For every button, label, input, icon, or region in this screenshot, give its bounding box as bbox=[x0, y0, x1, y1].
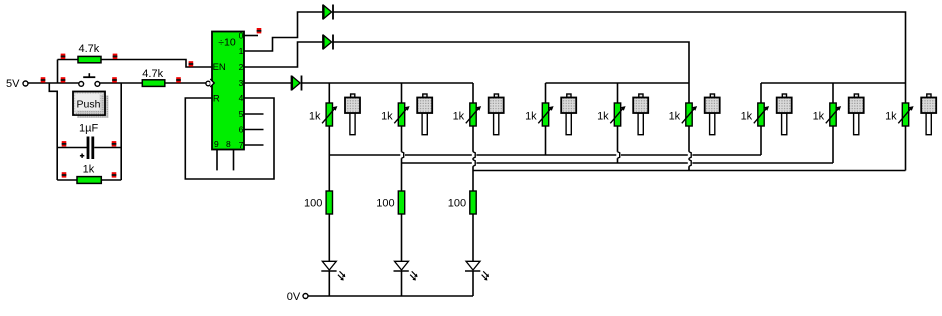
wire drop to pot 7 bbox=[760, 83, 762, 103]
IC U1 decade counter ÷10 bbox=[210, 30, 244, 149]
svg-text:1µF: 1µF bbox=[79, 123, 98, 135]
wire R loop bbox=[185, 98, 274, 179]
svg-text:100: 100 bbox=[376, 197, 394, 209]
pin 9 stub bbox=[216, 150, 218, 171]
svg-text:6: 6 bbox=[239, 124, 244, 134]
wire D2 to channel 6 column bbox=[333, 42, 689, 103]
handle 1k row left bbox=[62, 172, 67, 177]
wire drop to pot 5 bbox=[617, 83, 619, 103]
pin 8 stub bbox=[233, 150, 235, 171]
wire R2 to clock bbox=[165, 82, 206, 84]
svg-text:100: 100 bbox=[448, 197, 466, 209]
wire pot9 down bbox=[905, 126, 907, 171]
svg-text:1: 1 bbox=[239, 46, 244, 56]
svg-text:8: 8 bbox=[226, 139, 231, 149]
variable resistor VR4 1k bbox=[525, 103, 554, 126]
wire D1 to channel 9 column bbox=[333, 12, 906, 103]
wire pot4 down bbox=[545, 126, 547, 155]
wire 100ohm to LED 1 bbox=[328, 214, 330, 261]
svg-text:Push: Push bbox=[77, 98, 101, 110]
wire pot7 down bbox=[760, 126, 762, 155]
wire 5V to push switch bbox=[28, 82, 79, 84]
svg-text:1k: 1k bbox=[453, 110, 465, 122]
wire jog down to capacitor loop bbox=[49, 83, 57, 148]
wire pin3 to D3 bbox=[244, 82, 292, 84]
handle before clock bbox=[176, 77, 181, 82]
svg-text:2: 2 bbox=[239, 62, 244, 72]
svg-text:0: 0 bbox=[239, 30, 244, 40]
variable resistor VR2 1k bbox=[381, 103, 410, 126]
variable resistor VR9 1k bbox=[885, 103, 914, 126]
wire pot8 down bbox=[832, 126, 834, 163]
bus column 2 bbox=[402, 162, 834, 164]
wire 1k row left bbox=[57, 179, 77, 181]
svg-text:5: 5 bbox=[239, 109, 244, 119]
mallet striker M2 bbox=[417, 94, 432, 135]
wire 100ohm to LED 2 bbox=[401, 214, 403, 261]
variable resistor VR3 1k bbox=[453, 103, 482, 126]
mallet striker M9 bbox=[921, 94, 936, 135]
wire R1 to EN bbox=[101, 60, 212, 68]
mallet striker M8 bbox=[849, 94, 864, 135]
mallet striker M3 bbox=[489, 94, 504, 135]
LED D4 bbox=[321, 261, 345, 280]
variable resistor VR7 1k bbox=[741, 103, 770, 126]
mallet striker M7 bbox=[777, 94, 792, 135]
handle after switch bbox=[112, 77, 117, 82]
wire LED 2 to 0V rail bbox=[401, 271, 403, 296]
mallet striker M4 bbox=[561, 94, 576, 135]
diode D3 bbox=[292, 76, 302, 91]
resistor 100 R6 channel 3 bbox=[448, 191, 476, 214]
node junction up-branch bbox=[57, 60, 59, 84]
resistor R1 4.7k bbox=[78, 43, 101, 63]
pin 7 stub bbox=[244, 144, 264, 146]
wire LED 3 to 0V rail bbox=[472, 271, 474, 296]
resistor 100 R4 channel 1 bbox=[304, 191, 332, 214]
mallet striker M5 bbox=[633, 94, 648, 135]
capacitor C1 1uF bbox=[79, 123, 98, 159]
bus segment C bbox=[761, 82, 906, 84]
svg-text:4: 4 bbox=[239, 93, 244, 103]
bus segment B bbox=[546, 82, 690, 84]
svg-text:5V: 5V bbox=[6, 78, 20, 90]
LED D5 bbox=[394, 261, 418, 280]
resistor 100 R5 channel 2 bbox=[376, 191, 404, 214]
ground terminal 0V bbox=[287, 291, 308, 303]
handle 1k row right bbox=[112, 172, 117, 177]
bus column 3 bbox=[473, 170, 906, 172]
wire 1k row right bbox=[101, 179, 121, 181]
wire cap row right bbox=[94, 147, 121, 149]
svg-text:÷10: ÷10 bbox=[218, 36, 236, 48]
svg-text:1k: 1k bbox=[525, 110, 537, 122]
svg-text:9: 9 bbox=[214, 139, 219, 149]
svg-text:0V: 0V bbox=[287, 291, 301, 303]
wire pot3 down bbox=[473, 126, 475, 191]
handle R1 right bbox=[113, 54, 118, 59]
wire cap row left bbox=[57, 147, 87, 149]
wire pin1 staircase bbox=[244, 12, 323, 51]
handle cap row right bbox=[112, 141, 117, 146]
variable resistor VR1 1k bbox=[309, 103, 338, 126]
wire pot5 down bbox=[618, 126, 620, 163]
svg-text:1k: 1k bbox=[309, 110, 321, 122]
clock input node bbox=[206, 81, 211, 86]
svg-text:100: 100 bbox=[304, 197, 322, 209]
wire 0V rail bbox=[308, 295, 473, 297]
handle pin 0 bbox=[257, 28, 262, 33]
svg-text:R: R bbox=[213, 93, 220, 104]
wire drop to pot 4 bbox=[545, 83, 547, 103]
svg-text:3: 3 bbox=[239, 78, 244, 88]
wire LED 1 to 0V rail bbox=[328, 271, 330, 296]
mallet striker M6 bbox=[705, 94, 720, 135]
wire pot1 down bbox=[328, 126, 330, 191]
pin 5 stub bbox=[244, 113, 264, 115]
variable resistor VR8 1k bbox=[813, 103, 842, 126]
svg-text:1k: 1k bbox=[741, 110, 753, 122]
handle main-row right bbox=[61, 77, 66, 82]
variable resistor VR5 1k bbox=[597, 103, 626, 126]
mallet striker M1 bbox=[345, 94, 360, 135]
handle main-row left bbox=[41, 77, 46, 82]
svg-text:1k: 1k bbox=[83, 164, 95, 176]
resistor R3 1k bbox=[77, 164, 101, 184]
pin 0 stub bbox=[244, 35, 258, 37]
handle R1 left bbox=[61, 54, 66, 59]
wire pin2 staircase bbox=[244, 42, 323, 67]
diode D2 bbox=[323, 35, 333, 50]
LED D6 bbox=[465, 261, 489, 280]
power terminal 5V bbox=[6, 78, 28, 90]
wire R1 row left bbox=[58, 59, 79, 61]
handle cap row left bbox=[62, 141, 67, 146]
svg-text:7: 7 bbox=[239, 140, 244, 150]
wire pot6 down bbox=[689, 126, 691, 171]
wire drop to pot 8 bbox=[832, 83, 834, 103]
diode D1 bbox=[323, 5, 333, 20]
bus segment A pin3 bbox=[302, 82, 474, 84]
svg-text:1k: 1k bbox=[597, 110, 609, 122]
wire 100ohm to LED 3 bbox=[472, 214, 474, 261]
variable resistor VR6 1k bbox=[669, 103, 698, 126]
wire pot2 down bbox=[402, 126, 404, 191]
wire switch to R2 bbox=[100, 82, 143, 84]
push button actuator bbox=[73, 92, 109, 119]
svg-text:4.7k: 4.7k bbox=[79, 43, 100, 55]
push switch SW1 bbox=[79, 73, 100, 86]
svg-text:1k: 1k bbox=[669, 110, 681, 122]
bus column 1 bbox=[329, 154, 761, 156]
pin 6 stub bbox=[244, 129, 264, 131]
wire drop to pot 3 bbox=[472, 83, 474, 103]
wire drop to pot 1 bbox=[328, 83, 330, 103]
wire drop to pot 2 bbox=[401, 83, 403, 103]
svg-text:4.7k: 4.7k bbox=[142, 68, 163, 80]
wire loop left vertical bbox=[56, 148, 58, 181]
svg-text:1k: 1k bbox=[885, 110, 897, 122]
svg-text:1k: 1k bbox=[813, 110, 825, 122]
svg-text:EN: EN bbox=[213, 62, 226, 73]
svg-text:1k: 1k bbox=[381, 110, 393, 122]
handle EN corner bbox=[189, 61, 194, 66]
wire loop right vertical bbox=[120, 83, 122, 180]
resistor R2 4.7k bbox=[142, 68, 165, 86]
